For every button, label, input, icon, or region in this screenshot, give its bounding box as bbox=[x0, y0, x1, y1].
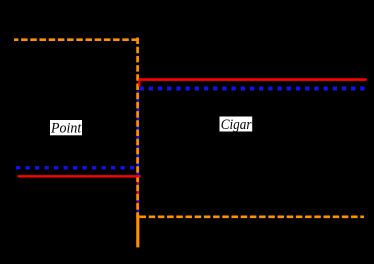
orange dashed horizontal: bottom-right branch bbox=[140, 216, 365, 219]
label box Cigar bbox=[220, 117, 253, 132]
orange dashed horizontal: top-left branch bbox=[14, 38, 138, 41]
svg-text:Cigar: Cigar bbox=[221, 117, 252, 133]
blue dotted horizontal: left branch bbox=[16, 166, 137, 169]
svg-text:Point: Point bbox=[50, 121, 82, 137]
red solid horizontal: left low branch bbox=[18, 175, 141, 177]
red solid horizontal: right high branch bbox=[139, 78, 367, 81]
blue dotted horizontal: right branch bbox=[140, 87, 365, 91]
orange solid vertical lower tail bbox=[136, 215, 139, 247]
blue dotted vertical segment (under orange bar) bbox=[137, 91, 140, 224]
red vertical segment lower (under orange bar, flecks in gaps) bbox=[137, 176, 139, 213]
red vertical segment top hug bbox=[138, 79, 140, 87]
orange dashed vertical (transition line) bbox=[136, 38, 139, 218]
label box Point bbox=[50, 120, 82, 135]
